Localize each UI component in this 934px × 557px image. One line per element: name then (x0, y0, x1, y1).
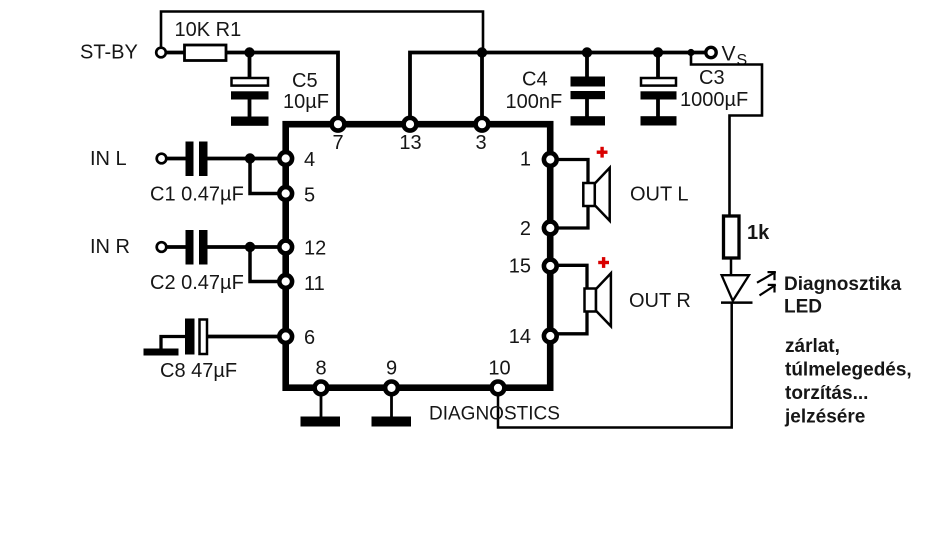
wire pin 15 to speaker R (555, 265, 587, 289)
terminal Vs (706, 47, 716, 57)
terminal IN R (157, 242, 167, 252)
svg-text:S: S (737, 52, 748, 69)
junction node above pin 3 (477, 47, 487, 57)
capacitor C1 (186, 142, 194, 177)
wire pin 13 up and right to Vs rail (410, 53, 705, 123)
junction node Vs branch (687, 49, 694, 56)
ground C3 (641, 116, 677, 125)
pin 14 (544, 330, 557, 343)
LED light arrow upper (757, 271, 776, 283)
svg-text:LED: LED (784, 297, 822, 318)
svg-text:torzítás...: torzítás... (785, 383, 868, 404)
svg-text:12: 12 (304, 238, 326, 260)
polarity + for OUT L (597, 147, 608, 158)
pin 3 (476, 118, 489, 131)
wire IN R to C2 (166, 245, 186, 249)
wire pin 9 to ground (390, 392, 393, 417)
wire ST-BY terminal to R1 (166, 51, 184, 55)
wire R1 to pin 7 (226, 53, 338, 123)
LED light arrow lower (760, 284, 776, 295)
pin 15 (544, 260, 557, 273)
LED D1 (diagnostics) (722, 275, 749, 301)
svg-text:10: 10 (488, 358, 510, 380)
capacitor C4 (585, 53, 589, 78)
ground pin 8 (301, 417, 341, 427)
svg-text:jelzésére: jelzésére (784, 407, 865, 428)
wire C2 to pin 12 (208, 245, 285, 249)
pin 2 (544, 222, 557, 235)
capacitor C8 (electrolytic) (185, 319, 195, 355)
svg-text:zárlat,: zárlat, (785, 336, 840, 357)
wire pin 1 to speaker L (555, 160, 588, 185)
polarity + for OUT R (598, 257, 609, 268)
wire Vs node to resistor R2 (jog down the right side) (691, 55, 762, 217)
wire pin 10 to LED cathode (diagnostics line) (498, 304, 732, 428)
pin 4 (279, 152, 292, 165)
junction node C1 / pin 4 / pin 5 (245, 153, 255, 163)
wire speaker R to pin 14 (555, 311, 587, 334)
ground C4 (571, 116, 606, 125)
svg-text:2: 2 (520, 218, 531, 240)
svg-text:15: 15 (509, 256, 531, 278)
wire junction to pin 5 (250, 159, 284, 194)
svg-text:10µF: 10µF (283, 91, 329, 113)
wire C8 to pin 6 (208, 335, 284, 339)
capacitor C3 (electrolytic) (656, 53, 660, 78)
svg-text:6: 6 (304, 327, 315, 349)
svg-text:IN R: IN R (90, 236, 130, 258)
svg-text:C2 0.47µF: C2 0.47µF (150, 272, 244, 294)
ground C5 (231, 117, 269, 126)
resistor R1 (185, 45, 227, 61)
pin 10 (492, 382, 505, 395)
svg-text:Diagnosztika: Diagnosztika (784, 274, 902, 295)
svg-text:túlmelegedés,: túlmelegedés, (785, 360, 912, 381)
wire speaker L to pin 2 (555, 206, 588, 229)
svg-text:13: 13 (399, 132, 421, 154)
junction node C4 (582, 47, 592, 57)
wire pin 8 to ground (320, 392, 323, 417)
svg-text:5: 5 (304, 185, 315, 207)
svg-text:100nF: 100nF (506, 91, 563, 113)
wire IN L to C1 (166, 157, 186, 161)
ground pin 9 (372, 417, 412, 427)
svg-text:3: 3 (475, 132, 486, 154)
svg-text:4: 4 (304, 149, 315, 171)
capacitor C5 (electrolytic) (248, 53, 252, 78)
IC U1 body (power amplifier) (286, 124, 551, 388)
svg-text:C4: C4 (522, 69, 548, 91)
junction node C3 (653, 47, 663, 57)
svg-text:C8 47µF: C8 47µF (160, 360, 237, 382)
pin 6 (279, 330, 292, 343)
pin 5 (279, 187, 292, 200)
ground C8 (144, 349, 179, 356)
wire junction to pin 11 (250, 247, 284, 282)
terminal IN L (157, 154, 167, 164)
pin 8 (315, 382, 328, 395)
capacitor C2 (186, 230, 194, 265)
resistor R2 1k (724, 216, 740, 258)
svg-text:ST-BY: ST-BY (80, 42, 138, 64)
wire node to pin 3 (480, 53, 484, 123)
wire C1 to pin 4 (208, 157, 285, 161)
junction node R1 / C5 (244, 47, 254, 57)
pin 11 (279, 275, 292, 288)
svg-text:8: 8 (315, 358, 326, 380)
terminal ST-BY (156, 48, 166, 58)
pin 7 (332, 118, 345, 131)
wire R2 to LED (730, 258, 733, 276)
svg-text:OUT R: OUT R (629, 290, 691, 312)
svg-text:7: 7 (332, 132, 343, 154)
junction node C2 / pin 12 / pin 11 (245, 242, 255, 252)
pin 9 (385, 382, 398, 395)
svg-text:11: 11 (304, 273, 325, 295)
svg-text:V: V (722, 43, 736, 66)
svg-text:9: 9 (386, 358, 397, 380)
svg-text:1k: 1k (747, 222, 770, 244)
svg-text:1000µF: 1000µF (680, 89, 748, 111)
pin 12 (279, 241, 292, 254)
wire top feedback loop ST-BY to node above pin 3 (161, 12, 483, 53)
svg-text:14: 14 (509, 326, 531, 348)
pin 13 (404, 118, 417, 131)
svg-text:C3: C3 (699, 67, 725, 89)
svg-text:OUT L: OUT L (630, 184, 689, 206)
svg-text:IN L: IN L (90, 148, 127, 170)
wire C8 to ground (161, 337, 185, 350)
speaker OUT R (585, 289, 597, 312)
svg-text:DIAGNOSTICS: DIAGNOSTICS (429, 404, 560, 425)
svg-text:C1 0.47µF: C1 0.47µF (150, 184, 244, 206)
svg-text:1: 1 (520, 149, 531, 171)
speaker OUT L (583, 183, 595, 206)
svg-text:10K R1: 10K R1 (175, 19, 242, 41)
pin 1 (544, 153, 557, 166)
svg-text:C5: C5 (292, 70, 318, 92)
